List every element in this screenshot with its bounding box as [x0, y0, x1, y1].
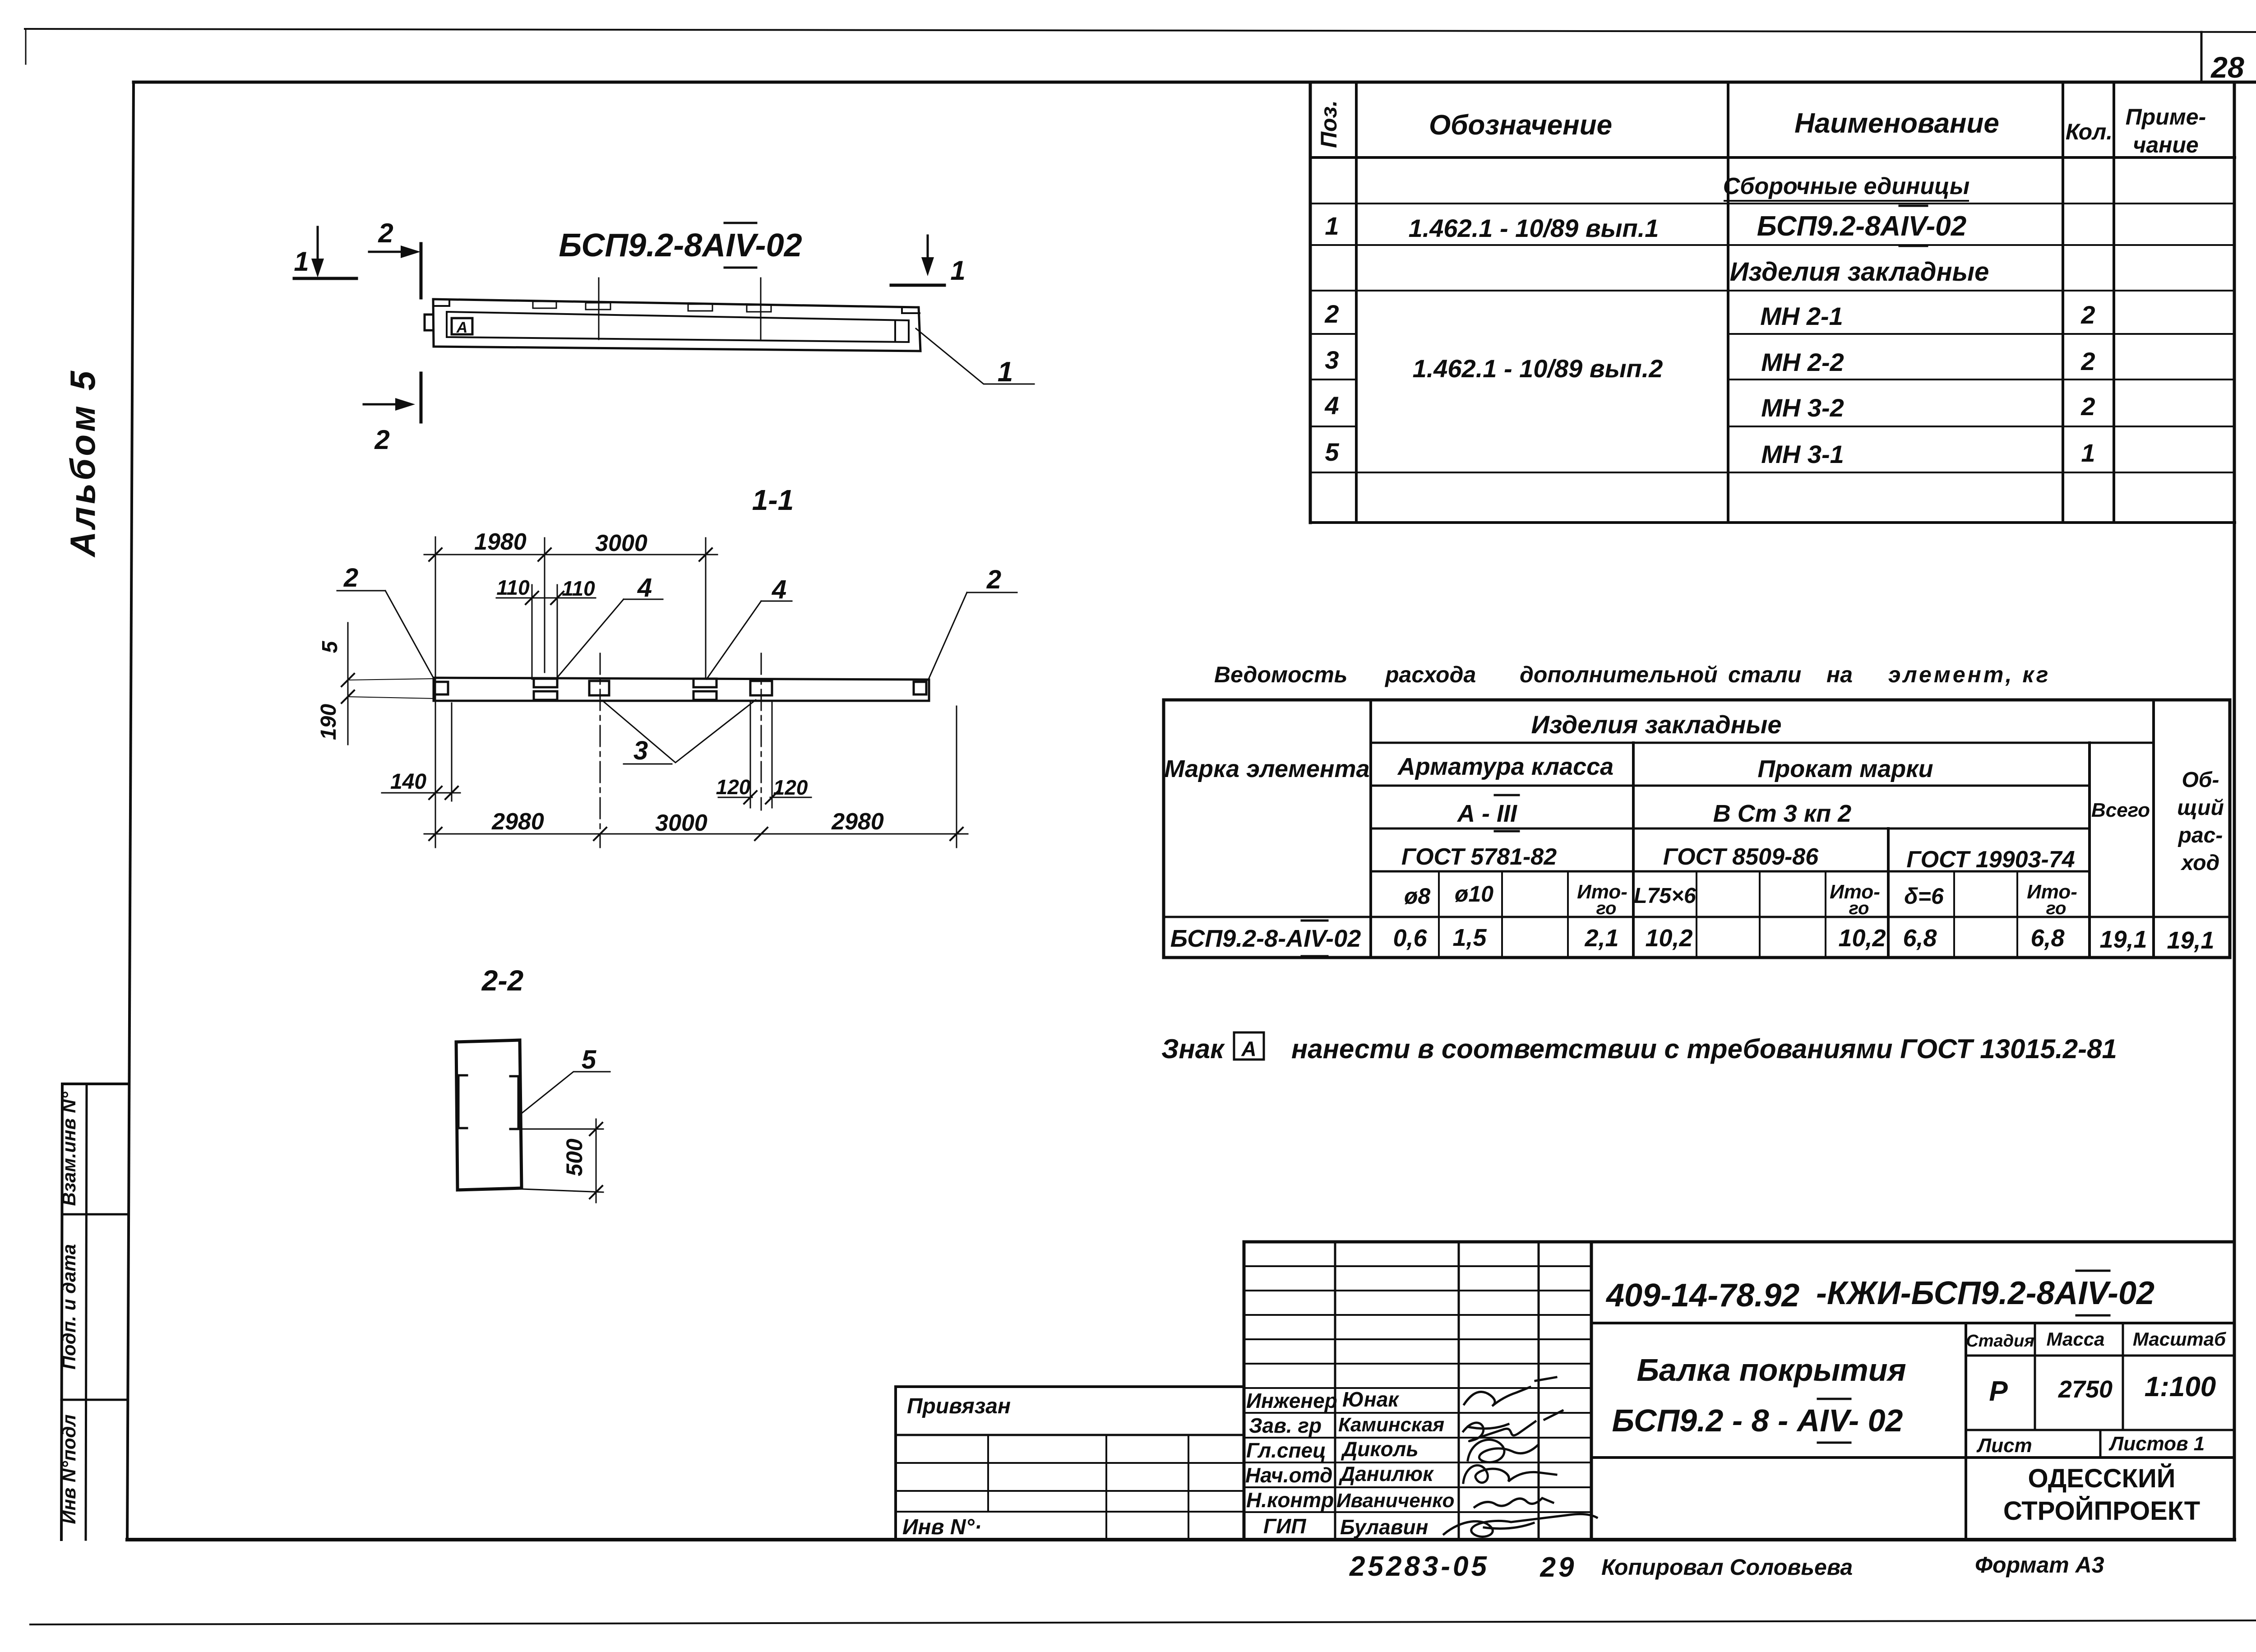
svg-text:Формат А3: Формат А3	[1975, 1552, 2104, 1578]
signature 4	[1463, 1465, 1556, 1483]
svg-text:Всего: Всего	[2091, 799, 2150, 821]
dim line 1980-3000	[424, 554, 717, 555]
svg-text:1,5: 1,5	[1452, 924, 1487, 951]
svg-text:Булавин: Булавин	[1340, 1515, 1428, 1539]
leader 3	[604, 700, 756, 763]
mark A box	[452, 318, 472, 334]
svg-text:Об-: Об-	[2182, 768, 2219, 792]
svg-text:Сборочные единицы: Сборочные единицы	[1723, 173, 1970, 199]
svg-text:ø8: ø8	[1404, 884, 1431, 909]
svg-text:ход: ход	[2180, 851, 2220, 875]
svg-text:2,1: 2,1	[1584, 925, 1618, 952]
svg-text:Прокат марки: Прокат марки	[1757, 755, 1933, 782]
svg-text:дополнительной: дополнительной	[1520, 662, 1718, 687]
svg-text:2-2: 2-2	[481, 964, 524, 997]
svg-text:Кол.: Кол.	[2066, 119, 2113, 144]
axis line right	[761, 653, 762, 810]
svg-text:го: го	[2046, 898, 2066, 918]
svg-text:2: 2	[343, 563, 358, 592]
svg-text:-КЖИ-БСП9.2-8АIV-02: -КЖИ-БСП9.2-8АIV-02	[1816, 1275, 2154, 1311]
svg-text:1: 1	[998, 356, 1013, 388]
svg-text:Балка покрытия: Балка покрытия	[1637, 1352, 1906, 1388]
svg-text:го: го	[1596, 898, 1617, 918]
beam inner panel	[447, 312, 909, 342]
svg-text:Обозначение: Обозначение	[1429, 110, 1612, 141]
dim line 110-110	[496, 597, 596, 599]
svg-text:расхода: расхода	[1384, 662, 1476, 687]
svg-text:Стадия: Стадия	[1966, 1332, 2034, 1351]
svg-text:5: 5	[582, 1045, 596, 1074]
dim line 2980-3000-2980	[424, 833, 968, 835]
svg-text:3000: 3000	[655, 810, 707, 836]
svg-text:Знак: Знак	[1161, 1034, 1225, 1064]
svg-text:1: 1	[2081, 439, 2095, 467]
right plate 2-2	[510, 1076, 518, 1129]
frame right	[2233, 82, 2236, 1540]
svg-text:1-1: 1-1	[752, 484, 794, 516]
svg-text:Привязан: Привязан	[907, 1394, 1011, 1418]
svg-text:4: 4	[637, 573, 652, 602]
svg-text:1980: 1980	[474, 529, 527, 555]
beam top plate 3	[688, 304, 712, 311]
svg-text:6,8: 6,8	[1903, 925, 1937, 952]
svg-text:ø10: ø10	[1455, 881, 1493, 907]
title block top	[1244, 1240, 2234, 1244]
svg-text:Копировал Соловьева: Копировал Соловьева	[1601, 1555, 1853, 1580]
svg-text:3000: 3000	[595, 530, 647, 556]
svg-text:БСП9.2-8-АIV-02: БСП9.2-8-АIV-02	[1170, 925, 1361, 952]
svg-text:1: 1	[294, 246, 309, 277]
beam left end plate tab	[425, 315, 433, 330]
svg-text:Инв N°·: Инв N°·	[902, 1515, 982, 1539]
beam section bar	[434, 678, 929, 701]
signature 1	[1464, 1377, 1556, 1406]
leader 1	[916, 329, 1034, 384]
svg-text:190: 190	[317, 704, 341, 740]
svg-text:2: 2	[2080, 347, 2095, 375]
svg-text:щий: щий	[2177, 796, 2224, 820]
sheet top edge	[25, 29, 2256, 32]
plate pair C bottom	[693, 691, 717, 700]
svg-text:2: 2	[378, 218, 393, 248]
svg-text:1.462.1 - 10/89 вып.2: 1.462.1 - 10/89 вып.2	[1413, 354, 1663, 383]
page number box	[2201, 32, 2203, 82]
svg-text:0,6: 0,6	[1393, 925, 1427, 952]
plate pair A top	[534, 679, 557, 687]
svg-text:2980: 2980	[491, 809, 544, 835]
svg-text:δ=6: δ=6	[1904, 884, 1944, 909]
dim 140	[382, 792, 460, 794]
svg-text:ГОСТ 8509-86: ГОСТ 8509-86	[1663, 844, 1819, 870]
svg-text:1: 1	[1325, 212, 1339, 240]
svg-text:Альбом 5: Альбом 5	[63, 368, 102, 558]
steel table verticals	[1369, 700, 1372, 958]
signature 6	[1444, 1514, 1597, 1536]
svg-text:Ведомость: Ведомость	[1214, 662, 1347, 687]
svg-text:чание: чание	[2133, 132, 2199, 157]
svg-text:2: 2	[1324, 300, 1339, 328]
svg-text:Подп. и дата: Подп. и дата	[58, 1244, 79, 1370]
svg-text:1: 1	[950, 255, 965, 286]
svg-text:29: 29	[1540, 1552, 1577, 1583]
svg-text:Н.контр: Н.контр	[1246, 1488, 1334, 1512]
svg-text:Инженер: Инженер	[1246, 1389, 1337, 1412]
svg-text:Поз.: Поз.	[1316, 100, 1341, 148]
beam top plate 4	[747, 305, 771, 312]
beam axis lines	[598, 278, 600, 339]
svg-text:БСП9.2 - 8 - АIV- 02: БСП9.2 - 8 - АIV- 02	[1612, 1403, 1903, 1438]
beam right corner notch	[902, 307, 920, 313]
plate left end	[435, 682, 448, 694]
svg-text:Изделия закладные: Изделия закладные	[1730, 257, 1989, 287]
parts table frame	[1309, 83, 1312, 523]
svg-text:10,2: 10,2	[1645, 925, 1692, 952]
svg-text:4: 4	[772, 575, 786, 604]
frame left	[127, 82, 134, 1540]
plate pair A bottom	[534, 691, 557, 700]
svg-text:элемент, кг: элемент, кг	[1888, 662, 2050, 687]
svg-text:МН 3-1: МН 3-1	[1761, 440, 1844, 468]
svg-text:409-14-78.92: 409-14-78.92	[1605, 1277, 1799, 1314]
svg-text:МН 3-2: МН 3-2	[1761, 393, 1844, 422]
svg-text:нанести в соответствии с т: нанести в соответствии с требованиями ГО…	[1291, 1034, 2117, 1064]
frame bottom	[127, 1538, 2234, 1541]
svg-text:140: 140	[390, 770, 426, 794]
left plate 2-2	[458, 1075, 467, 1128]
big title cell lines	[1591, 1322, 2234, 1324]
svg-text:120: 120	[716, 775, 751, 799]
svg-text:БСП9.2-8АIV-02: БСП9.2-8АIV-02	[559, 227, 802, 264]
svg-text:А - III: А - III	[1456, 800, 1517, 827]
svg-text:3: 3	[633, 736, 648, 765]
sheet bottom edge	[30, 1620, 2256, 1624]
svg-text:Листов 1: Листов 1	[2108, 1433, 2205, 1455]
plate single B	[589, 681, 609, 695]
svg-text:2: 2	[2080, 392, 2095, 421]
svg-text:СТРОЙПРОЕКТ: СТРОЙПРОЕКТ	[2003, 1496, 2200, 1526]
svg-text:1:100: 1:100	[2145, 1371, 2216, 1402]
svg-text:Гл.спец: Гл.спец	[1246, 1439, 1326, 1462]
svg-text:рас-: рас-	[2177, 824, 2223, 847]
svg-text:2: 2	[374, 425, 389, 455]
svg-text:L75×6: L75×6	[1634, 884, 1696, 908]
svg-text:110: 110	[496, 576, 530, 599]
svg-text:110: 110	[562, 577, 595, 600]
beam left corner notch	[434, 300, 449, 306]
plate single D	[750, 681, 772, 695]
sig table verticals	[1243, 1242, 1246, 1540]
parts table header bottom	[1310, 156, 2235, 159]
svg-text:ГОСТ 19903-74: ГОСТ 19903-74	[1906, 847, 2075, 873]
left stamp column box	[61, 1084, 127, 1540]
svg-text:ОДЕССКИЙ: ОДЕССКИЙ	[2028, 1464, 2176, 1493]
parts table row lines	[1310, 203, 2235, 204]
svg-text:Изделия закладные: Изделия закладные	[1531, 710, 1781, 739]
beam top plate 1	[533, 301, 556, 308]
svg-text:МН 2-2: МН 2-2	[1761, 348, 1844, 376]
beam top plate 2	[586, 303, 610, 310]
svg-text:6,8: 6,8	[2030, 925, 2064, 952]
svg-text:В Ст 3 кп 2: В Ст 3 кп 2	[1713, 800, 1851, 827]
svg-text:Каминская: Каминская	[1338, 1414, 1444, 1436]
dim 500	[522, 1129, 603, 1192]
frame top	[134, 81, 2256, 84]
svg-text:Зав. гр: Зав. гр	[1249, 1414, 1322, 1437]
svg-text:1.462.1 - 10/89 вып.1: 1.462.1 - 10/89 вып.1	[1409, 214, 1659, 242]
svg-text:5: 5	[318, 640, 342, 653]
privyazan box	[896, 1385, 1244, 1388]
svg-text:19,1: 19,1	[2099, 926, 2147, 953]
svg-text:Арматура класса: Арматура класса	[1397, 753, 1613, 780]
svg-text:ГИП: ГИП	[1263, 1514, 1306, 1538]
svg-text:А: А	[1241, 1037, 1256, 1060]
dim 120-120	[718, 797, 811, 798]
svg-text:2750: 2750	[2058, 1376, 2113, 1403]
dim 5 and 190	[347, 623, 349, 745]
steel table horizontals	[1371, 742, 2154, 744]
svg-text:Масштаб: Масштаб	[2133, 1328, 2226, 1350]
leader 5	[521, 1072, 610, 1114]
svg-text:Диколь: Диколь	[1341, 1437, 1419, 1461]
svg-text:3: 3	[1325, 346, 1339, 374]
steel table outer	[1164, 700, 2230, 958]
axis line left	[600, 653, 601, 847]
signature 3	[1468, 1440, 1538, 1462]
svg-text:Инв N°подл: Инв N°подл	[58, 1414, 79, 1524]
svg-text:Лист: Лист	[1976, 1435, 2032, 1457]
plate right end	[914, 682, 926, 694]
svg-text:2980: 2980	[831, 809, 884, 835]
svg-text:19,1: 19,1	[2167, 927, 2214, 954]
beam outline	[433, 299, 920, 351]
svg-text:Данилюк: Данилюк	[1338, 1462, 1434, 1485]
svg-text:120: 120	[773, 776, 808, 799]
svg-text:Нач.отд: Нач.отд	[1245, 1463, 1332, 1487]
svg-text:БСП9.2-8АIV-02: БСП9.2-8АIV-02	[1757, 211, 1966, 242]
svg-text:Наименование: Наименование	[1794, 108, 1999, 139]
signature 2	[1463, 1411, 1563, 1441]
svg-text:стали: стали	[1728, 662, 1801, 687]
svg-text:Юнак: Юнак	[1342, 1388, 1400, 1411]
svg-text:на: на	[1826, 662, 1853, 687]
svg-text:500: 500	[562, 1138, 587, 1176]
svg-text:5: 5	[1325, 438, 1339, 466]
plate pair C top	[693, 679, 717, 687]
sig table rows	[1244, 1265, 1591, 1267]
svg-text:го: го	[1849, 898, 1869, 918]
svg-text:2: 2	[986, 565, 1001, 594]
svg-text:Иваниченко: Иваниченко	[1336, 1490, 1454, 1512]
svg-text:Взам.инв N°: Взам.инв N°	[58, 1091, 79, 1206]
signature 5	[1475, 1498, 1553, 1507]
svg-text:А: А	[456, 319, 468, 336]
svg-text:ГОСТ 5781-82: ГОСТ 5781-82	[1401, 844, 1557, 870]
section 2-2 outline	[456, 1040, 522, 1190]
svg-text:Приме-: Приме-	[2126, 104, 2206, 130]
svg-text:Масса: Масса	[2047, 1328, 2105, 1350]
svg-text:Марка элемента: Марка элемента	[1164, 755, 1369, 782]
svg-text:2: 2	[2080, 301, 2095, 329]
svg-text:Р: Р	[1989, 1376, 2008, 1407]
svg-text:10,2: 10,2	[1838, 925, 1886, 952]
svg-text:МН 2-1: МН 2-1	[1760, 302, 1843, 330]
svg-text:28: 28	[2210, 51, 2244, 84]
svg-text:25283-05: 25283-05	[1349, 1551, 1489, 1582]
svg-text:4: 4	[1324, 391, 1339, 420]
